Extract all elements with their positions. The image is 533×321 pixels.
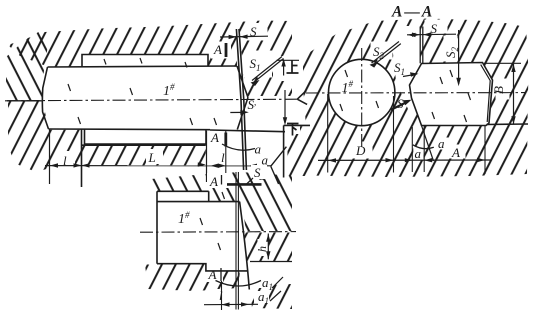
lower band top line: [82, 144, 206, 146]
vertical centerline circle: [361, 48, 363, 150]
l extension line bottom fig: [221, 281, 223, 310]
hatch: bushing top band (left figure): [8, 21, 292, 97]
halo A dim: [449, 145, 466, 159]
label halo l left: [59, 151, 75, 166]
label halo A top: [211, 42, 231, 59]
hatch: bottom fig lower band: [145, 265, 240, 292]
halo B: [496, 79, 510, 100]
alpha arc small: [271, 147, 287, 184]
S dim line top right: [407, 33, 456, 36]
svg-text:a: a: [415, 146, 422, 161]
band right vertical: [206, 131, 208, 182]
bar right chamfer: [237, 66, 248, 98]
bar bottom chamfer: [237, 98, 248, 130]
svg-text:a: a: [438, 136, 445, 151]
bar 1# top edge: [48, 66, 238, 67]
halo h: [258, 239, 269, 256]
A tick top: [221, 175, 223, 185]
S1 feed arrow right fig: [403, 74, 417, 76]
horizontal centerline right figure: [306, 92, 526, 94]
label halo S top: [246, 23, 268, 41]
h dimension: [267, 234, 269, 260]
svg-text:S,: S,: [248, 97, 257, 112]
S2 vertical feed arrow: [458, 30, 460, 84]
centerline of bar: [5, 99, 297, 101]
tick marks in circle and hexagon: [340, 70, 471, 122]
bottom dimension line D a A: [318, 159, 492, 161]
die top edge right: [210, 130, 285, 132]
halo A bottom of bottom fig: [206, 268, 223, 282]
section line A-A vertical: [225, 130, 227, 180]
bar tip chamfer curve: [42, 67, 48, 129]
label halo S1: [244, 51, 272, 78]
B dimension line: [513, 64, 515, 124]
A tick bottom: [220, 268, 222, 281]
surface tick marks on bar: [68, 58, 217, 125]
svg-text:1#: 1#: [163, 82, 175, 99]
ext line left: [49, 129, 51, 184]
svg-text:D: D: [355, 143, 366, 158]
circle outline: [329, 59, 395, 125]
svg-text:l: l: [221, 150, 225, 165]
dimension line l and L: [45, 165, 271, 167]
hexagon white: [410, 63, 493, 126]
halo alpha right: [436, 138, 449, 150]
halo S2 diagonal: [371, 42, 393, 60]
right die left edge vertical: [283, 125, 285, 177]
hexagon outline: [410, 63, 493, 126]
S feed arrow lower: [391, 102, 408, 110]
hatch: right die block of left figure: [287, 126, 313, 176]
alpha1 arc: [216, 281, 262, 287]
bar bottom left: [157, 264, 248, 271]
svg-text:A: A: [213, 42, 222, 57]
die top edge right of hexagon: [487, 123, 529, 126]
halo l bottom fig: [216, 289, 229, 302]
A arrows: [477, 158, 485, 162]
blade vertical double above hexagon: [420, 27, 423, 64]
top plate on bar: [82, 55, 208, 67]
arrowheads dimension l/L: [50, 163, 58, 167]
halo A top bottom fig: [207, 173, 230, 188]
glyph up (shang): [287, 61, 299, 74]
D extension lines: [328, 94, 394, 173]
S bottom arrow: [230, 111, 245, 113]
boundary line h bottom: [250, 261, 292, 263]
bar left edge: [156, 191, 158, 263]
section tick A top: [225, 43, 228, 57]
section tick top: [227, 183, 262, 186]
svg-text:S: S: [250, 24, 257, 39]
S top dimension line: [220, 35, 268, 38]
hatch: bushing lower-left block: [8, 101, 50, 172]
bar circle white: [329, 59, 395, 125]
up feed tick line: [277, 59, 300, 61]
blade left line: [236, 29, 243, 170]
S arrow bottom fig: [246, 178, 254, 185]
halo D: [351, 142, 373, 159]
angle alpha arc: [413, 145, 434, 149]
a arrows: [405, 158, 413, 162]
l dimension bottom fig: [204, 303, 258, 305]
right die top edge: [284, 124, 310, 126]
svg-text:A: A: [208, 267, 217, 282]
svg-text:A: A: [451, 145, 460, 160]
svg-text:A—A: A—A: [391, 4, 432, 21]
alpha arc big: [222, 144, 255, 150]
label halo up-arrow zone: [273, 56, 296, 81]
alpha1 leg ticks: [270, 277, 283, 301]
step vertical x81: [81, 129, 83, 187]
hatch: bottom fig upper die (back slant): [151, 172, 292, 231]
halo a dim: [413, 147, 423, 161]
hatch: bottom fig mid right block: [244, 233, 292, 262]
glyph down (xia): [287, 124, 299, 136]
bar bottom edge: [49, 128, 211, 131]
S2 diagonal feed arrow double: [372, 42, 401, 66]
up feed arrow: [283, 61, 285, 76]
hatch: strip below bar left of step: [50, 130, 81, 166]
lower plate below bar: [85, 129, 207, 144]
svg-text:S: S: [397, 96, 404, 111]
label halo down-arrow zone: [286, 121, 300, 134]
halo alpha1 labels: [258, 276, 273, 288]
bar top edge bottom fig: [157, 201, 240, 203]
S1 feed arrow double line: [252, 57, 284, 83]
D arrows: [328, 158, 336, 162]
label halo L: [146, 149, 163, 164]
halo S2 rotated: [444, 36, 458, 62]
angle alpha leg: [422, 126, 434, 162]
halo S top right: [425, 20, 448, 34]
bottom fig centerline: [140, 231, 296, 234]
svg-text:S: S: [254, 165, 261, 180]
section line A-A double: [236, 172, 238, 310]
svg-text:h: h: [255, 246, 269, 252]
down feed arrow: [284, 90, 286, 123]
blade right line: [239, 29, 246, 170]
section tick A bottom: [224, 133, 227, 147]
svg-text:S: S: [431, 21, 438, 36]
hatch: pusher block left of bar tip: [6, 29, 48, 101]
S1 arrowhead: [251, 80, 260, 86]
svg-text:1#: 1#: [178, 210, 190, 227]
hatch: lower bushing band with L dimension: [82, 145, 206, 165]
halo S bottom fig: [251, 165, 267, 179]
blade slot white wedge: [393, 26, 422, 113]
svg-text:a: a: [255, 142, 262, 157]
svg-text:l: l: [63, 153, 67, 168]
svg-text:l: l: [219, 288, 223, 303]
svg-text:B: B: [491, 86, 506, 94]
tick marks bottom fig bar: [200, 192, 225, 250]
hexagon blade double edge: [481, 65, 491, 122]
bar top plate bottom fig: [157, 191, 209, 201]
B top extension: [484, 62, 521, 64]
arrowheads dimension l2: [211, 164, 219, 168]
svg-text:A: A: [209, 174, 218, 189]
lower-left block top edge: [7, 100, 42, 102]
cutting edge slant: [240, 202, 250, 290]
svg-text:L: L: [148, 150, 156, 165]
hatch: bottom fig lower right: [250, 284, 292, 309]
arrowheads S top at blade: [229, 35, 237, 39]
svg-text:A: A: [210, 130, 219, 145]
centerline end arrow: [297, 91, 307, 105]
hatch: section A-A die block: [303, 19, 529, 178]
a A extension lines: [412, 126, 485, 174]
